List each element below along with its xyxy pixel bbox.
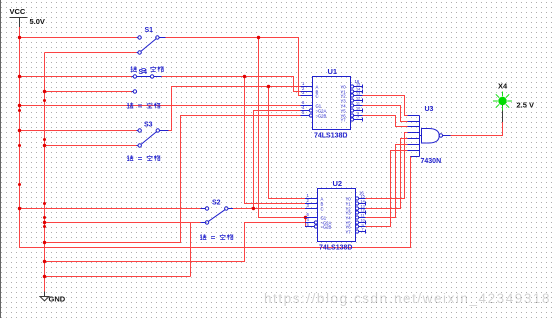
svg-text:12: 12 [356,97,360,101]
svg-text:https://blog.csdn.net/weixin_4: https://blog.csdn.net/weixin_42349318 [264,291,551,306]
svg-text:74LS138D: 74LS138D [314,133,347,140]
svg-text:10: 10 [356,107,360,111]
svg-text:12: 12 [361,209,365,213]
svg-text:Y7: Y7 [341,118,347,123]
svg-text:C: C [316,94,319,99]
svg-text:X4: X4 [498,82,508,91]
svg-text:13: 13 [356,92,360,96]
svg-text:5.0V: 5.0V [30,17,45,26]
svg-text:7: 7 [362,228,364,232]
svg-text:S4: S4 [139,69,148,76]
svg-text:15: 15 [356,83,360,87]
svg-text:U3: U3 [425,106,434,113]
svg-text:~G2B: ~G2B [321,225,332,230]
svg-text:S3: S3 [144,122,153,129]
svg-text:11: 11 [356,102,360,106]
svg-text:S1: S1 [145,27,154,34]
svg-text:S2: S2 [212,200,221,207]
svg-text:Y7: Y7 [346,230,352,235]
svg-text:2.5 V: 2.5 V [517,101,535,110]
svg-text:15: 15 [361,195,365,199]
svg-text:14: 14 [361,200,365,204]
svg-text:10: 10 [361,219,365,223]
svg-text:VCC: VCC [10,7,26,16]
svg-text:C: C [321,207,324,212]
svg-text:11: 11 [361,214,365,218]
svg-text:U1: U1 [328,67,338,76]
svg-text:74LS138D: 74LS138D [319,245,352,252]
svg-text:GND: GND [49,295,66,304]
svg-text:~G2B: ~G2B [316,114,327,119]
svg-text:U2: U2 [333,179,343,188]
svg-text:7: 7 [357,116,359,120]
svg-text:7430N: 7430N [421,158,442,165]
